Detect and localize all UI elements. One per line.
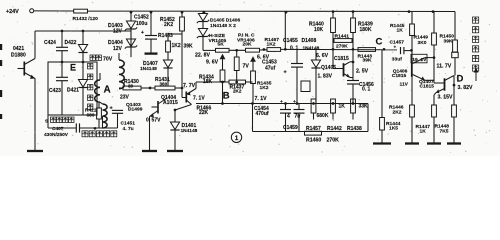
- svg-text:E: E: [70, 63, 76, 73]
- svg-text:R1449: R1449: [414, 35, 429, 41]
- svg-text:33K: 33K: [359, 103, 369, 109]
- svg-text:11. 7V: 11. 7V: [437, 64, 452, 70]
- svg-text:C: C: [376, 37, 383, 48]
- svg-text:270K: 270K: [336, 43, 348, 49]
- svg-text:1K2: 1K2: [267, 41, 276, 47]
- svg-text:2K2: 2K2: [164, 22, 173, 28]
- svg-text:680: 680: [87, 113, 95, 119]
- svg-text:+: +: [280, 100, 283, 105]
- svg-text:39K: 39K: [184, 44, 194, 50]
- svg-text:1N4148: 1N4148: [303, 45, 320, 51]
- svg-text:1K2: 1K2: [260, 85, 269, 91]
- svg-text:C423: C423: [49, 88, 61, 94]
- svg-text:1. 83V: 1. 83V: [318, 74, 333, 80]
- svg-text:C1815: C1815: [420, 83, 435, 89]
- svg-text:1K: 1K: [420, 129, 427, 135]
- svg-text:R1438: R1438: [347, 126, 362, 132]
- svg-text:4: 4: [287, 114, 290, 120]
- svg-text:C407: C407: [52, 126, 64, 132]
- svg-text:7V: 7V: [243, 64, 250, 70]
- svg-text:1K: 1K: [397, 28, 404, 34]
- svg-text:0. 57V: 0. 57V: [146, 118, 161, 124]
- svg-text:1K5: 1K5: [389, 126, 398, 132]
- svg-text:+: +: [284, 70, 287, 76]
- svg-text:1: 1: [235, 135, 239, 142]
- svg-text:+: +: [141, 30, 144, 36]
- svg-text:0. 1: 0. 1: [362, 87, 371, 93]
- svg-text:R1432 /120: R1432 /120: [73, 16, 99, 22]
- svg-text:+: +: [293, 100, 296, 105]
- svg-text:D1499: D1499: [128, 106, 143, 112]
- svg-text:B: B: [223, 91, 230, 102]
- svg-text:3K0: 3K0: [418, 40, 427, 46]
- svg-text:D1405 D1406: D1405 D1406: [210, 18, 240, 24]
- svg-text:10K: 10K: [314, 27, 324, 33]
- svg-text:33uf: 33uf: [392, 56, 402, 62]
- svg-text:47uf: 47uf: [265, 66, 276, 72]
- svg-text:D421: D421: [67, 88, 79, 94]
- svg-text:270K: 270K: [327, 137, 340, 143]
- svg-text:C1452: C1452: [134, 15, 149, 21]
- svg-text:4. 7u: 4. 7u: [123, 126, 134, 132]
- svg-text:11V: 11V: [400, 81, 409, 87]
- svg-text:7u: 7u: [295, 114, 301, 120]
- svg-text:12V: 12V: [113, 46, 123, 52]
- svg-text:1N4148: 1N4148: [181, 128, 198, 134]
- svg-text:23V: 23V: [120, 95, 130, 101]
- svg-text:1N4148: 1N4148: [140, 66, 157, 72]
- svg-text:C1459: C1459: [283, 125, 298, 131]
- svg-text:39K: 39K: [363, 57, 372, 63]
- svg-text:C1815: C1815: [334, 56, 349, 62]
- svg-text:22. 8V: 22. 8V: [195, 52, 211, 58]
- svg-text:C424: C424: [44, 40, 56, 46]
- svg-text:D1880: D1880: [11, 53, 26, 59]
- svg-text:A: A: [104, 85, 111, 96]
- svg-text:680K: 680K: [317, 113, 329, 119]
- svg-text:22K: 22K: [199, 110, 209, 116]
- svg-text:470uf: 470uf: [256, 111, 269, 117]
- svg-text:1K2: 1K2: [172, 43, 181, 49]
- svg-text:C1457: C1457: [390, 40, 405, 46]
- svg-text:180K: 180K: [360, 27, 372, 33]
- svg-text:20K: 20K: [243, 41, 252, 47]
- svg-text:D: D: [457, 73, 464, 84]
- svg-text:7. 1V: 7. 1V: [193, 96, 205, 102]
- svg-text:A1015: A1015: [163, 100, 178, 106]
- svg-text:2. 5V: 2. 5V: [356, 69, 369, 75]
- svg-text:3. 15V: 3. 15V: [438, 94, 454, 100]
- svg-text:2K2: 2K2: [233, 88, 242, 93]
- svg-text:360: 360: [160, 81, 168, 86]
- svg-text:12V: 12V: [113, 29, 123, 35]
- svg-text:+: +: [394, 45, 397, 50]
- svg-text:9. 6V: 9. 6V: [206, 60, 219, 66]
- svg-text:7. 1V: 7. 1V: [255, 96, 268, 102]
- svg-text:C1451: C1451: [121, 121, 136, 127]
- svg-text:C1455: C1455: [283, 38, 298, 44]
- svg-text:70V: 70V: [103, 57, 113, 63]
- svg-text:D1408: D1408: [302, 38, 317, 44]
- svg-text:+24V: +24V: [6, 9, 19, 15]
- svg-text:100u: 100u: [136, 21, 147, 27]
- svg-text:39K: 39K: [444, 38, 453, 44]
- svg-text:39: 39: [128, 84, 134, 89]
- svg-text:3. 82V: 3. 82V: [458, 85, 474, 91]
- svg-text:430N/250V: 430N/250V: [44, 132, 69, 138]
- svg-text:C1815: C1815: [392, 73, 407, 79]
- svg-text:1N4148 X 2: 1N4148 X 2: [210, 23, 236, 29]
- svg-text:5K: 5K: [218, 41, 225, 47]
- svg-text:2K2: 2K2: [393, 109, 402, 115]
- svg-text:0421: 0421: [13, 46, 24, 52]
- svg-text:R1442: R1442: [327, 126, 342, 132]
